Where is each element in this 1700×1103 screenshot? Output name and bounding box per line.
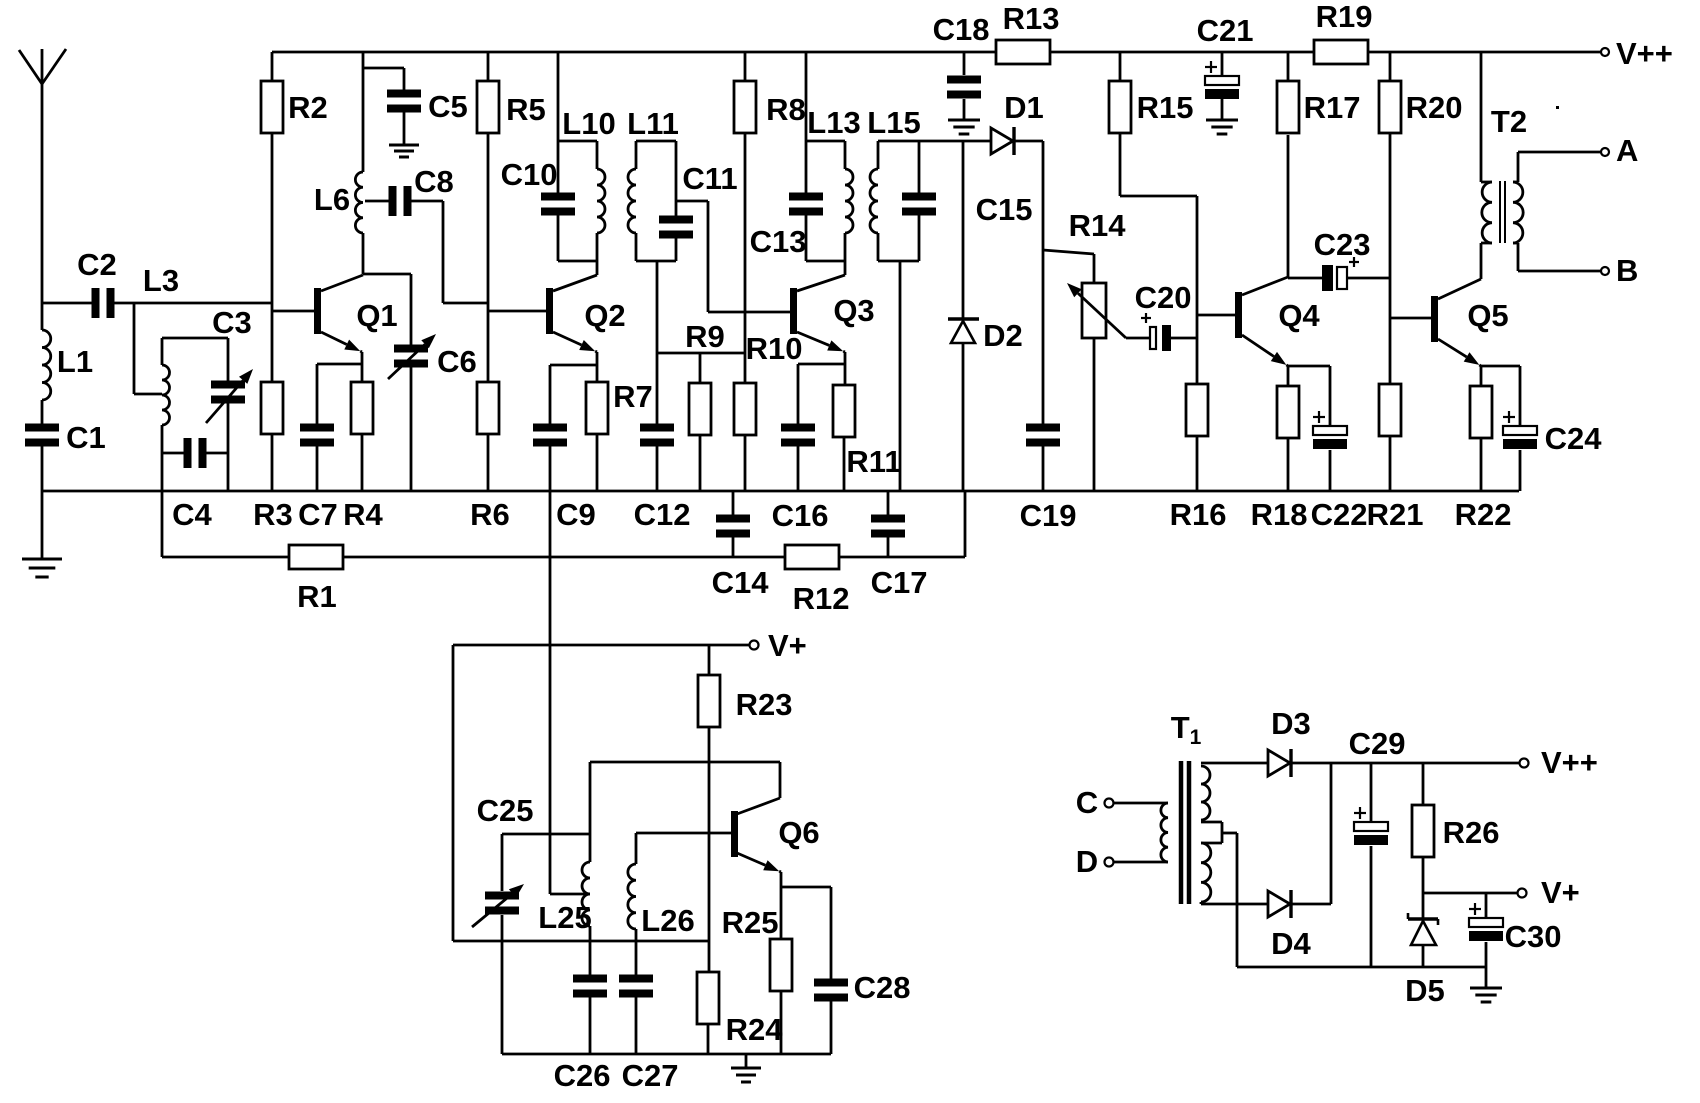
svg-text:R24: R24 (726, 1012, 784, 1047)
svg-text:R1: R1 (297, 579, 337, 614)
svg-text:R25: R25 (722, 905, 779, 940)
svg-text:Q4: Q4 (1278, 298, 1320, 333)
svg-text:C9: C9 (556, 497, 596, 532)
svg-text:R9: R9 (685, 319, 725, 354)
svg-text:V+: V+ (1541, 875, 1580, 910)
svg-text:V++: V++ (1541, 745, 1598, 780)
svg-text:C8: C8 (414, 164, 454, 199)
svg-text:L1: L1 (57, 344, 93, 379)
svg-text:C22: C22 (1311, 497, 1368, 532)
svg-text:C15: C15 (976, 192, 1033, 227)
svg-text:R10: R10 (746, 331, 803, 366)
svg-text:L3: L3 (143, 263, 179, 298)
svg-text:R22: R22 (1455, 497, 1512, 532)
svg-text:R13: R13 (1003, 1, 1060, 36)
svg-text:C27: C27 (622, 1058, 679, 1093)
svg-text:L26: L26 (641, 903, 694, 938)
svg-text:L11: L11 (627, 106, 679, 141)
svg-text:R7: R7 (613, 379, 653, 414)
svg-text:R14: R14 (1069, 208, 1127, 243)
svg-text:B: B (1616, 253, 1638, 288)
svg-text:R8: R8 (766, 92, 806, 127)
svg-text:C11: C11 (682, 161, 737, 196)
svg-text:L15: L15 (867, 105, 920, 140)
svg-text:C16: C16 (772, 498, 829, 533)
svg-text:V++: V++ (1616, 36, 1673, 71)
svg-text:C12: C12 (634, 497, 691, 532)
svg-text:C7: C7 (298, 497, 338, 532)
svg-text:C18: C18 (933, 12, 990, 47)
svg-text:C29: C29 (1349, 726, 1406, 761)
svg-text:C13: C13 (750, 224, 807, 259)
svg-text:R21: R21 (1367, 497, 1424, 532)
svg-text:C20: C20 (1135, 280, 1192, 315)
svg-text:C5: C5 (428, 89, 468, 124)
svg-text:R19: R19 (1316, 0, 1373, 34)
svg-text:C21: C21 (1197, 13, 1254, 48)
svg-text:R6: R6 (470, 497, 510, 532)
svg-text:L10: L10 (562, 106, 615, 141)
svg-text:Q5: Q5 (1467, 298, 1508, 333)
svg-text:V+: V+ (768, 628, 807, 663)
svg-text:R26: R26 (1443, 815, 1500, 850)
svg-text:L25: L25 (538, 900, 591, 935)
svg-text:R16: R16 (1170, 497, 1227, 532)
svg-text:C17: C17 (871, 565, 928, 600)
svg-text:R3: R3 (253, 497, 293, 532)
svg-text:C4: C4 (172, 497, 212, 532)
svg-text:D1: D1 (1004, 90, 1044, 125)
svg-text:R11: R11 (846, 444, 901, 479)
svg-text:R18: R18 (1251, 497, 1308, 532)
svg-text:R15: R15 (1137, 90, 1194, 125)
svg-text:Q2: Q2 (584, 298, 625, 333)
svg-text:A: A (1616, 133, 1638, 168)
svg-text:C25: C25 (477, 793, 534, 828)
svg-text:C19: C19 (1020, 498, 1077, 533)
svg-text:C30: C30 (1505, 919, 1562, 954)
svg-text:T2: T2 (1491, 104, 1527, 139)
svg-text:D3: D3 (1271, 706, 1311, 741)
svg-text:R12: R12 (793, 581, 850, 616)
svg-text:Q3: Q3 (833, 293, 874, 328)
svg-text:C28: C28 (854, 970, 911, 1005)
svg-text:C: C (1076, 785, 1098, 820)
svg-text:C1: C1 (66, 420, 106, 455)
svg-text:Q1: Q1 (356, 298, 397, 333)
svg-text:D4: D4 (1271, 926, 1311, 961)
svg-text:R5: R5 (506, 92, 546, 127)
svg-text:C6: C6 (437, 344, 477, 379)
svg-text:Q6: Q6 (778, 815, 819, 850)
svg-text:D5: D5 (1405, 973, 1445, 1008)
svg-text:R23: R23 (736, 687, 793, 722)
svg-text:C10: C10 (501, 157, 558, 192)
svg-text:C14: C14 (712, 565, 770, 600)
svg-text:L13: L13 (807, 105, 860, 140)
svg-text:R20: R20 (1406, 90, 1463, 125)
svg-text:D2: D2 (983, 318, 1023, 353)
svg-text:C24: C24 (1545, 421, 1603, 456)
svg-text:R17: R17 (1304, 90, 1361, 125)
svg-text:R4: R4 (343, 497, 383, 532)
svg-text:R2: R2 (288, 90, 328, 125)
svg-text:C23: C23 (1314, 227, 1371, 262)
svg-text:C3: C3 (212, 305, 252, 340)
svg-text:D: D (1076, 844, 1098, 879)
svg-text:C2: C2 (77, 247, 117, 282)
svg-text:C26: C26 (554, 1058, 611, 1093)
svg-text:L6: L6 (314, 182, 350, 217)
